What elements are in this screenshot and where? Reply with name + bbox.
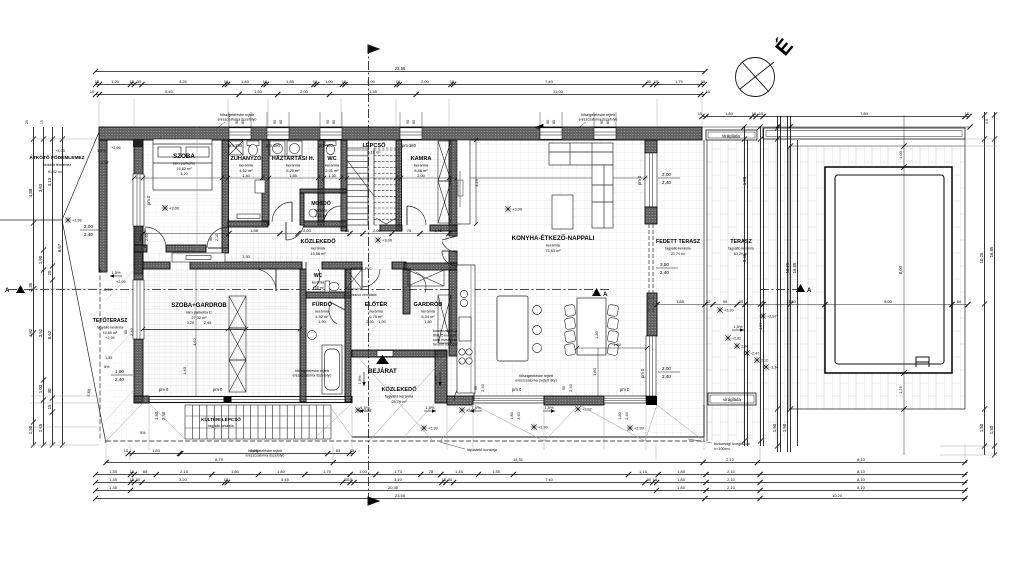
svg-text:2,10: 2,10: [727, 477, 736, 482]
svg-text:10: 10: [224, 79, 229, 84]
shower tray zuhanyzo: [237, 214, 260, 219]
svg-text:6,75 m²: 6,75 m²: [369, 314, 383, 319]
svg-text:90: 90: [546, 120, 550, 124]
dim total 23,55 top: [93, 66, 708, 74]
section line vertical with flags: [368, 45, 379, 505]
svg-text:A: A: [807, 288, 812, 294]
levels pool path: [725, 335, 732, 342]
roof contour dashed left: [99, 268, 101, 441]
svg-text:2,40: 2,40: [625, 412, 629, 419]
kitchen counter top-left: [457, 140, 470, 224]
door haztartasi: [286, 222, 304, 240]
svg-text:hőszigetelésbe rejtett: hőszigetelésbe rejtett: [220, 113, 254, 117]
entrance door gap: [377, 351, 393, 357]
svg-text:1,00: 1,00: [898, 150, 903, 159]
svg-text:30: 30: [647, 477, 652, 482]
pool deck tiles: [789, 146, 965, 409]
dim bottom row2: [93, 469, 968, 477]
svg-text:30: 30: [739, 299, 744, 304]
svg-text:4,92 m²: 4,92 m²: [315, 314, 329, 319]
svg-text:kerámia: kerámia: [325, 163, 340, 168]
wall wc/lepcso: [341, 140, 347, 231]
svg-text:3,23: 3,23: [474, 178, 479, 187]
label 3,50/2,40 fedett: [656, 262, 678, 275]
svg-text:ZUHANYZÓ: ZUHANYZÓ: [230, 154, 262, 162]
svg-text:2,00: 2,00: [300, 89, 309, 94]
lapostetokonturja note: [440, 442, 498, 452]
svg-text:1,00: 1,00: [359, 469, 368, 474]
svg-text:kony elvezetése: kony elvezetése: [433, 338, 457, 342]
pool center vline: [903, 115, 905, 455]
corridor top wall (bottom of small rooms): [228, 221, 268, 227]
dining table: [577, 298, 606, 355]
window top wall at 411: [400, 128, 422, 139]
wall furdo/eloter: [345, 269, 351, 402]
svg-text:1,5%: 1,5%: [97, 149, 106, 153]
svg-text:83: 83: [336, 448, 341, 453]
svg-text:fagyálló kerámia: fagyálló kerámia: [208, 424, 234, 428]
section line horizontal A-A: [8, 289, 610, 291]
svg-text:1,90: 1,90: [318, 319, 326, 324]
svg-text:15: 15: [759, 111, 764, 116]
dimension extension lines top: [99, 99, 702, 127]
svg-text:10: 10: [313, 79, 318, 84]
wall szoba left lower: [134, 339, 143, 403]
svg-text:hőszigetelésbe rejtett: hőszigetelésbe rejtett: [581, 113, 615, 117]
svg-text:+2,99: +2,99: [634, 427, 644, 431]
svg-text:+2,98: +2,98: [72, 219, 82, 223]
svg-text:10,80 m²: 10,80 m²: [103, 331, 118, 335]
svg-text:ereszcsatorna öszefolyó: ereszcsatorna öszefolyó: [579, 118, 618, 122]
svg-text:7,40: 7,40: [545, 79, 554, 84]
fedett/terasz boundary: [703, 140, 705, 441]
viraglada box 2 bottom: [708, 393, 756, 405]
window top wall at 551: [540, 128, 562, 139]
svg-text:1,50: 1,50: [28, 425, 33, 434]
exterior wall top: [99, 127, 702, 140]
wall szoba left upper: [134, 140, 143, 274]
kamra shelving: [438, 141, 451, 181]
svg-text:16,85: 16,85: [792, 262, 797, 273]
section marker A middle: [592, 288, 608, 298]
dim chain top subtotal: [90, 89, 711, 97]
svg-text:1,00: 1,00: [38, 384, 43, 393]
svg-text:1,45: 1,45: [434, 228, 443, 233]
dim corridor: [140, 228, 457, 236]
svg-text:60: 60: [279, 120, 283, 124]
vdim left 1: [28, 127, 36, 448]
svg-text:1,75: 1,75: [323, 469, 332, 474]
section marker A left: [5, 285, 25, 294]
svg-text:2,40: 2,40: [517, 412, 521, 419]
window top wall at 605: [594, 128, 616, 139]
atkoto fodemlemez label: [29, 149, 84, 174]
svg-text:15: 15: [653, 477, 658, 482]
label tetoterasz door 1,80/2,40: [111, 369, 133, 382]
svg-text:A: A: [603, 292, 608, 298]
svg-text:1,65: 1,65: [38, 423, 43, 432]
left slope labels: [97, 146, 146, 435]
wall pier right: [645, 207, 657, 224]
svg-text:1,5%: 1,5%: [425, 405, 435, 410]
svg-text:fagyálló kerámia: fagyálló kerámia: [665, 247, 691, 251]
vdim right outer 1: [979, 112, 987, 455]
roof hip diagonals: [106, 357, 704, 441]
svg-text:10: 10: [263, 79, 268, 84]
svg-text:kerámia: kerámia: [312, 281, 325, 285]
svg-text:1,80: 1,80: [618, 412, 622, 419]
svg-text:2,10: 2,10: [727, 469, 736, 474]
svg-text:5%: 5%: [104, 365, 110, 369]
svg-text:60: 60: [552, 120, 556, 124]
svg-text:1,73: 1,73: [394, 469, 403, 474]
svg-text:1,50: 1,50: [989, 425, 994, 434]
room label FURDO: [312, 301, 333, 324]
sofa L-shape: [549, 143, 613, 229]
terasz tiles: [705, 140, 789, 441]
svg-text:10: 10: [224, 477, 229, 482]
svg-text:2,40: 2,40: [569, 384, 573, 391]
svg-text:1,40: 1,40: [182, 366, 187, 375]
room label SZOBAGARDROB: [171, 303, 227, 325]
viraglada strip top right: [763, 128, 965, 139]
svg-text:15: 15: [701, 79, 706, 84]
svg-text:90: 90: [326, 120, 330, 124]
safety glass note: [688, 439, 751, 451]
svg-text:1,50: 1,50: [772, 423, 777, 432]
vdim terrace i: [792, 140, 798, 446]
svg-text:+2,99: +2,99: [105, 336, 114, 340]
zuhanyzo washbasin: [255, 180, 265, 193]
door bigroom from corridor: [442, 251, 457, 266]
extension lines right: [940, 139, 997, 455]
svg-text:1,40: 1,40: [242, 173, 250, 178]
gutter note szoba bottom: [246, 449, 285, 458]
svg-text:2,40: 2,40: [662, 180, 671, 185]
wall mosdo top: [300, 189, 347, 193]
svg-text:2,00: 2,00: [373, 228, 382, 233]
window top wall at 240: [229, 128, 251, 139]
label left window 2,00/2,40: [80, 224, 102, 237]
fedett terasz tiles: [652, 140, 705, 437]
svg-text:2,00: 2,00: [417, 173, 425, 178]
svg-text:23,55: 23,55: [395, 66, 406, 71]
svg-text:30: 30: [137, 79, 142, 84]
svg-text:kerámia: kerámia: [239, 163, 254, 168]
door gardrob2: [410, 271, 426, 293]
svg-text:kerámia: kerámia: [369, 309, 384, 314]
svg-text:pm 180: pm 180: [228, 143, 243, 148]
dim bottom row0: [124, 448, 356, 456]
terrace edge bottom with railing: [352, 436, 704, 438]
label window right 2,00/2,40: [658, 172, 680, 185]
vdim left 2: [38, 127, 46, 448]
svg-text:2,12: 2,12: [761, 359, 768, 363]
svg-text:2,15: 2,15: [180, 469, 189, 474]
door wc2: [306, 262, 320, 288]
svg-text:1,15: 1,15: [639, 469, 648, 474]
room label KAMRA: [411, 156, 432, 178]
svg-text:kerámia: kerámia: [315, 309, 330, 314]
pool outer: [825, 167, 952, 373]
svg-text:90: 90: [124, 330, 128, 334]
svg-text:kerámia: kerámia: [315, 209, 328, 213]
room label KOZLEKEDO2: [381, 386, 417, 404]
svg-text:+3,03: +3,03: [55, 149, 65, 153]
mosdo washbasin: [309, 209, 317, 217]
svg-text:61,02 m²: 61,02 m²: [48, 170, 63, 174]
svg-text:75: 75: [407, 228, 412, 233]
svg-text:1,80: 1,80: [277, 469, 286, 474]
svg-text:ereszcsatorna öszefolyó: ereszcsatorna öszefolyó: [293, 374, 332, 378]
svg-text:-2,47: -2,47: [751, 352, 759, 356]
svg-text:1,85: 1,85: [286, 79, 295, 84]
svg-text:2,40: 2,40: [145, 234, 149, 241]
dim top right extension line: [702, 124, 973, 129]
pool ladder: [916, 357, 929, 367]
exterior wall left upper: [99, 140, 107, 272]
room label HAZTARTASI: [272, 155, 315, 178]
svg-text:15,62 m²: 15,62 m²: [176, 166, 192, 171]
floor corridor and small rooms tiles: [228, 140, 457, 262]
label door right 2,00/2,40 lower: [658, 366, 680, 379]
svg-text:15: 15: [124, 448, 129, 453]
svg-text:A: A: [5, 288, 10, 294]
door tetoterasz left wall: [133, 280, 144, 339]
svg-text:2,40: 2,40: [84, 232, 93, 237]
room label SZOBA: [173, 153, 195, 176]
svg-text:1,5%: 1,5%: [733, 324, 743, 329]
svg-text:4,88: 4,88: [28, 188, 33, 197]
svg-text:1,85: 1,85: [677, 477, 686, 482]
door szobagardrob from corridor: [254, 269, 276, 291]
vdim terrace g: [782, 116, 788, 452]
kitchen counter left: [457, 265, 475, 393]
svg-text:4,82: 4,82: [28, 328, 33, 337]
svg-text:23,55: 23,55: [395, 493, 406, 498]
vdim right outer 2: [989, 112, 997, 458]
wall zuhanyzo/haztartasi: [262, 140, 269, 225]
svg-text:lam.parketta C: lam.parketta C: [186, 310, 211, 315]
svg-text:1,35: 1,35: [492, 469, 501, 474]
svg-text:kerámia: kerámia: [311, 246, 326, 251]
entrance marker triangle: [376, 355, 389, 364]
corridor sideboard: [172, 253, 225, 262]
svg-text:3,35: 3,35: [369, 89, 378, 94]
gutter note living room: [515, 374, 557, 383]
room label ZUHANYZO: [230, 154, 262, 178]
svg-text:FEDETT TERASZ: FEDETT TERASZ: [656, 239, 701, 245]
vdim left 4: [57, 127, 65, 448]
kamra door arc: [407, 206, 426, 225]
svg-text:15: 15: [95, 79, 100, 84]
svg-text:SZOBA+GARDROB: SZOBA+GARDROB: [171, 303, 227, 309]
svg-text:30: 30: [448, 477, 453, 482]
svg-text:4,0: 4,0: [985, 119, 989, 124]
svg-text:1,50: 1,50: [979, 423, 984, 432]
svg-text:2,00: 2,00: [662, 366, 671, 371]
haztartasi washer dryer: [270, 141, 302, 156]
svg-text:pm 180: pm 180: [402, 143, 417, 148]
svg-text:ø160 KG-PVC: ø160 KG-PVC: [350, 267, 372, 271]
svg-text:25: 25: [25, 120, 29, 124]
svg-text:1,98: 1,98: [250, 228, 259, 233]
gardrob2 shelf top: [408, 270, 444, 286]
svg-text:2,01 m²: 2,01 m²: [325, 168, 339, 173]
svg-text:1,80: 1,80: [592, 367, 597, 376]
door mosdo: [324, 206, 341, 223]
svg-text:virágláda: virágláda: [723, 397, 741, 402]
svg-text:5%: 5%: [140, 431, 146, 435]
dimension extension lines bottom: [106, 406, 965, 460]
svg-text:1,80: 1,80: [231, 469, 240, 474]
svg-text:2,03: 2,03: [303, 228, 312, 233]
svg-text:pm 0: pm 0: [620, 387, 630, 392]
wc2 toilet: [325, 281, 339, 292]
door furdo: [329, 302, 345, 324]
dim bottom row1: [103, 457, 967, 465]
svg-text:1,80: 1,80: [115, 369, 124, 374]
vdim terrace b: [742, 140, 748, 446]
svg-text:85: 85: [143, 469, 148, 474]
wall wc2/furdo horizontal: [306, 292, 351, 298]
svg-text:4,52 m²: 4,52 m²: [239, 168, 253, 173]
svg-text:90: 90: [139, 237, 143, 241]
svg-text:1,35: 1,35: [105, 356, 112, 360]
svg-text:60: 60: [412, 120, 416, 124]
dining dim 1,60: [575, 342, 649, 350]
tetoterasz slope diagonals: [106, 270, 134, 420]
svg-text:2,40: 2,40: [115, 377, 124, 382]
viraglada box 1: [706, 130, 757, 140]
svg-text:KAMRA: KAMRA: [411, 156, 432, 162]
svg-text:1,60: 1,60: [613, 342, 622, 347]
svg-text:1,70: 1,70: [675, 79, 684, 84]
svg-text:+2,82: +2,82: [732, 337, 741, 341]
svg-text:1,50: 1,50: [254, 89, 263, 94]
room label NAPPALI: [512, 234, 595, 253]
door eloter: [362, 269, 380, 287]
svg-text:2,30 1,90: 2,30 1,90: [366, 319, 386, 324]
dim bottom row3: [93, 477, 968, 485]
svg-text:pm 0: pm 0: [213, 387, 223, 392]
wall szobagardrob/furdo: [300, 269, 306, 402]
svg-text:10,25: 10,25: [979, 252, 984, 263]
door szoba 2: [207, 227, 228, 248]
dim bottom row5: [93, 493, 968, 501]
svg-text:ereszcsatorna öszefolyó: ereszcsatorna öszefolyó: [246, 454, 285, 458]
svg-text:15: 15: [698, 111, 703, 116]
svg-text:1,30: 1,30: [328, 173, 336, 178]
svg-text:pm 180: pm 180: [319, 143, 334, 148]
svg-text:8,10: 8,10: [857, 485, 866, 490]
svg-text:TERASZ: TERASZ: [730, 239, 752, 245]
svg-text:hőszigetelésbe rejtett: hőszigetelésbe rejtett: [519, 374, 553, 378]
svg-text:5,20 m²: 5,20 m²: [286, 168, 300, 173]
furdo washbasin: [308, 331, 317, 340]
svg-text:1,90: 1,90: [38, 255, 43, 264]
svg-text:15: 15: [90, 89, 95, 94]
vdim terrace a: [742, 127, 747, 446]
bed in szoba: [153, 139, 212, 190]
door zuhanyzo: [272, 202, 292, 222]
svg-text:3,48: 3,48: [742, 253, 747, 262]
vdim terrace c: [758, 127, 763, 446]
svg-text:2,40: 2,40: [660, 270, 669, 275]
zuhanyzo toilet: [247, 141, 259, 156]
svg-text:1,05 m²: 1,05 m²: [312, 286, 325, 290]
svg-text:73,63 m²: 73,63 m²: [545, 248, 561, 253]
svg-text:ereszcsatorna (rejtett dky): ereszcsatorna (rejtett dky): [515, 379, 557, 383]
svg-text:2,40: 2,40: [481, 384, 485, 391]
text gazkazan: [433, 329, 469, 347]
svg-text:1,45: 1,45: [455, 469, 464, 474]
svg-text:90: 90: [723, 299, 728, 304]
sliding door band bottom left (pm 0): [149, 397, 352, 403]
svg-text:30: 30: [706, 299, 711, 304]
svg-text:+2,99: +2,99: [428, 427, 438, 431]
wall haztartasi/wc: [318, 140, 324, 225]
svg-text:3,52: 3,52: [38, 328, 43, 337]
svg-text:3,20 2,45: 3,20 2,45: [187, 320, 212, 325]
svg-text:ELŐTÉR: ELŐTÉR: [365, 300, 388, 308]
svg-text:78: 78: [429, 469, 434, 474]
svg-text:1,83: 1,83: [152, 448, 161, 453]
slope marks tetoterasz edge: [110, 274, 122, 277]
pool deck edge bottom: [789, 408, 965, 410]
covered terrace roof edge dashed: [648, 224, 650, 312]
svg-text:8,79: 8,79: [215, 457, 224, 462]
svg-text:60: 60: [332, 120, 336, 124]
svg-text:kerámia: kerámia: [421, 309, 436, 314]
svg-text:7,40: 7,40: [545, 477, 554, 482]
room label KOZLEKEDO: [300, 238, 336, 256]
svg-text:lam.parketta: lam.parketta: [173, 161, 195, 166]
svg-text:8,67: 8,67: [57, 243, 62, 252]
svg-text:15: 15: [442, 477, 447, 482]
svg-text:10,25: 10,25: [785, 262, 790, 273]
kitchen island: [497, 296, 528, 361]
svg-text:1,85: 1,85: [677, 469, 686, 474]
svg-text:1,35: 1,35: [109, 485, 118, 490]
svg-text:13,56 m²: 13,56 m²: [310, 251, 326, 256]
svg-text:11,00: 11,00: [553, 89, 563, 94]
zuhanyzo shower: [229, 141, 243, 155]
bathtub: [322, 345, 342, 394]
svg-text:2,10: 2,10: [726, 457, 735, 462]
svg-text:10: 10: [396, 79, 401, 84]
sliding glass doors bottom of living room: [473, 396, 544, 403]
svg-text:fagyálló kerámia: fagyálló kerámia: [97, 326, 123, 330]
gutter note bottom center: [293, 369, 332, 378]
interior dim line lower rooms: [141, 327, 302, 331]
wall lepcso/kamra: [396, 140, 402, 231]
wall szoba/zuhanyzo: [222, 140, 229, 253]
entrance recess top wall: [352, 350, 447, 357]
svg-text:LÉPCSŐ: LÉPCSŐ: [362, 141, 386, 149]
section marker A pool: [760, 289, 800, 291]
floor szoba parquet: [143, 140, 228, 245]
svg-text:-1,34: -1,34: [770, 366, 778, 370]
dim bottom row4: [93, 485, 968, 493]
svg-text:53: 53: [345, 228, 350, 233]
svg-text:27,32 m²: 27,32 m²: [191, 315, 207, 320]
extension lines left: [30, 139, 99, 445]
slope marks bottom: [359, 409, 371, 412]
svg-text:KÜLTÉRI LÉPCSŐ: KÜLTÉRI LÉPCSŐ: [201, 415, 241, 422]
svg-text:15: 15: [654, 79, 659, 84]
svg-text:pm 0: pm 0: [512, 387, 522, 392]
